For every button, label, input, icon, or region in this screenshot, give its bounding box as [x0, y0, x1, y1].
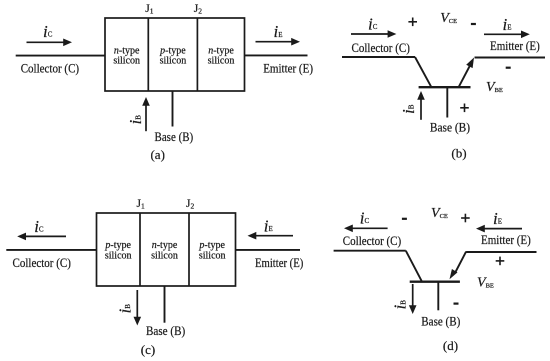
current arrow iE (c) [248, 232, 294, 240]
plus sign VBE bottom (b) [460, 104, 469, 113]
svg-text:n-type: n-type [208, 45, 234, 56]
svg-text:Base (B): Base (B) [430, 119, 470, 134]
svg-text:J1: J1 [145, 3, 153, 16]
svg-text:iB: iB [126, 115, 145, 125]
svg-text:iE: iE [274, 22, 283, 41]
base bar (d) [410, 281, 460, 283]
base lead wire (b) [446, 87, 448, 117]
svg-text:silicon: silicon [105, 251, 132, 262]
svg-text:VCE: VCE [440, 11, 457, 26]
svg-text:Collector (C): Collector (C) [13, 255, 71, 270]
emitter wire (d) [466, 251, 536, 253]
svg-text:p-type: p-type [198, 240, 225, 251]
svg-text:(b): (b) [451, 146, 466, 161]
svg-text:Base (B): Base (B) [146, 323, 185, 338]
base wire (a) [172, 91, 174, 127]
junction J1 divider line (c) [139, 213, 141, 286]
current arrow iE (a) [256, 38, 301, 46]
svg-text:Base (B): Base (B) [155, 129, 194, 144]
svg-text:J2: J2 [194, 3, 202, 16]
plus sign VBE top (d) [496, 257, 505, 266]
svg-text:Emitter (E): Emitter (E) [481, 232, 531, 247]
collector wire (b) [342, 56, 415, 58]
minus sign VCE left (d) [402, 218, 407, 220]
current arrow iE (b) [484, 31, 530, 39]
svg-text:iC: iC [43, 22, 53, 41]
junction J2 divider line (c) [188, 213, 190, 286]
svg-text:iB: iB [391, 300, 410, 310]
plus sign VCE right (d) [461, 214, 470, 223]
svg-text:iC: iC [368, 15, 378, 34]
base bar (b) [419, 86, 471, 88]
svg-text:Collector (C): Collector (C) [352, 40, 410, 55]
minus sign VBE bottom (d) [454, 303, 459, 305]
emitter diagonal lead with arrow (b) [459, 58, 474, 88]
svg-text:Collector (C): Collector (C) [21, 60, 79, 75]
svg-text:Emitter (E): Emitter (E) [490, 38, 540, 53]
junction J2 divider line (a) [196, 18, 198, 91]
svg-text:Emitter (E): Emitter (E) [255, 255, 303, 270]
svg-text:iE: iE [264, 217, 273, 236]
transistor body outline (c) [97, 213, 236, 286]
current arrow iB (b) [417, 91, 425, 120]
current arrow iB (c) [134, 290, 142, 326]
emitter wire (b) [475, 57, 546, 59]
minus sign VCE right (b) [471, 23, 476, 25]
collector wire (c) [6, 249, 96, 251]
svg-text:VBE: VBE [486, 80, 503, 95]
svg-text:n-type: n-type [152, 240, 178, 251]
svg-text:J1: J1 [137, 198, 145, 211]
svg-text:VCE: VCE [431, 206, 448, 221]
svg-text:iC: iC [34, 217, 44, 236]
base wire (c) [164, 286, 166, 323]
current arrow iC (c) [17, 233, 66, 241]
svg-text:Collector (C): Collector (C) [343, 233, 401, 248]
svg-text:(a): (a) [150, 147, 164, 162]
svg-text:silicon: silicon [113, 56, 140, 67]
svg-text:iB: iB [399, 104, 418, 114]
svg-text:silicon: silicon [160, 56, 187, 67]
current arrow iC (b) [351, 30, 396, 38]
svg-text:iC: iC [360, 208, 370, 227]
svg-text:n-type: n-type [114, 45, 140, 56]
svg-text:VBE: VBE [477, 275, 494, 290]
svg-text:p-type: p-type [104, 240, 131, 251]
emitter diagonal lead with arrow (d) [450, 252, 467, 280]
svg-text:Emitter (E): Emitter (E) [263, 60, 313, 75]
svg-text:silicon: silicon [199, 251, 226, 262]
svg-text:iE: iE [493, 209, 502, 228]
svg-text:silicon: silicon [208, 56, 235, 67]
minus sign VBE top (b) [506, 67, 511, 69]
plus sign VCE left (b) [408, 18, 417, 27]
svg-text:iE: iE [503, 15, 512, 34]
current arrow iB (d) [409, 284, 417, 314]
svg-text:(d): (d) [443, 338, 458, 353]
base lead wire (d) [437, 282, 439, 311]
current arrow iE (d) [476, 225, 522, 233]
svg-text:Base (B): Base (B) [421, 314, 460, 329]
current arrow iC (a) [27, 39, 73, 47]
svg-text:J2: J2 [186, 198, 194, 211]
current arrow iB (a) [142, 97, 150, 131]
transistor body outline (a) [105, 18, 245, 91]
svg-text:p-type: p-type [159, 45, 186, 56]
current arrow iC (d) [344, 225, 388, 233]
emitter wire (a) [245, 54, 308, 56]
junction J1 divider line (a) [147, 18, 149, 91]
emitter wire (c) [236, 249, 301, 251]
collector diagonal lead (b) [415, 57, 431, 87]
svg-text:(c): (c) [141, 342, 155, 357]
svg-text:silicon: silicon [151, 251, 178, 262]
collector wire (a) [16, 55, 105, 57]
collector wire (d) [334, 250, 406, 252]
svg-text:iB: iB [116, 304, 135, 314]
collector diagonal lead (d) [406, 251, 422, 282]
